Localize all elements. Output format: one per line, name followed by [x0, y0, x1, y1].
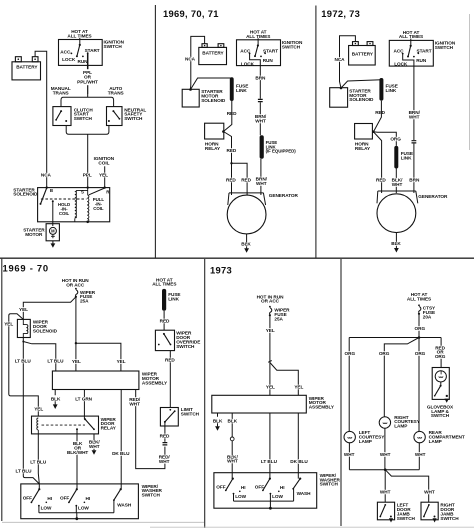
wiper door solenoid box [17, 319, 30, 337]
BLK ground wire [395, 233, 397, 249]
generator top plate [228, 193, 266, 205]
left jamb blade top dot [384, 504, 386, 506]
bus output drop [76, 513, 78, 519]
override lower contact dot [158, 344, 160, 346]
override switch pivot dot [163, 333, 165, 335]
switch output L wire [250, 53, 261, 65]
svg-text:BLK: BLK [213, 419, 223, 424]
BLK ground arrow [53, 404, 58, 409]
split brace to both switches [61, 94, 114, 107]
PPL wire to solenoid S [87, 134, 89, 187]
ignition switch box [59, 40, 103, 66]
svg-text:1969 - 70: 1969 - 70 [3, 262, 49, 273]
switch1 blade [226, 479, 233, 491]
svg-text:OFF: OFF [255, 485, 264, 490]
HI dot 1 [46, 502, 48, 504]
switch2 entry dot [269, 478, 271, 480]
svg-text:COIL: COIL [93, 206, 104, 211]
svg-text:YEL: YEL [117, 359, 126, 364]
generator top plate [377, 191, 418, 203]
svg-text:OR ACC: OR ACC [66, 282, 85, 287]
ORG wire horn relay to fuse link 2 [373, 132, 396, 146]
clutch switch lower contact dot [65, 120, 67, 122]
svg-text:LOW: LOW [235, 494, 246, 499]
ignition switch box [237, 40, 281, 66]
glovebox switch blade [435, 386, 441, 396]
starter motor solenoid box [182, 89, 199, 107]
WIPER DOOR OVERRIDE SWITCH label [176, 331, 200, 349]
bus junction dot [418, 336, 421, 339]
RUN dot 2 [260, 56, 262, 58]
HOT AT ALL TIMES label [399, 30, 423, 39]
STARTER MOTOR label [23, 228, 45, 237]
BLK ground arrow [215, 426, 220, 431]
BRN/WHT label 2 [256, 176, 268, 185]
svg-text:ORG: ORG [415, 326, 426, 331]
ctsy fuse symbol [418, 304, 421, 315]
svg-text:ORG: ORG [379, 351, 390, 356]
RED wire fuse link to override switch [163, 311, 165, 330]
svg-text:WHT: WHT [415, 452, 426, 457]
BRN/WHT label [255, 114, 267, 123]
YEL wire to motor left input [269, 362, 271, 395]
svg-text:LT BLU: LT BLU [15, 359, 32, 364]
starter solenoid box [38, 188, 110, 222]
rear compartment lamp filament [418, 437, 422, 438]
svg-text:LOCK: LOCK [394, 62, 408, 67]
svg-text:SWITCH: SWITCH [176, 344, 195, 349]
svg-text:HI: HI [86, 496, 91, 501]
LEFT DOOR JAMB SWITCH label [397, 502, 416, 521]
switch1 blade dot [31, 502, 33, 504]
solenoid dashed link [41, 198, 87, 200]
faint bottom edge line [150, 526, 474, 528]
ignition switch 3 blade dot [407, 56, 409, 58]
limit lower dot [164, 421, 166, 423]
wire fuse to wiper door solenoid [23, 297, 76, 320]
svg-text:WHT: WHT [409, 115, 420, 120]
svg-text:ORG: ORG [415, 351, 426, 356]
svg-text:YEL: YEL [4, 322, 13, 327]
svg-text:NCA: NCA [334, 57, 345, 62]
wiper washer switch box [21, 484, 139, 519]
ignition switch pivot dot [79, 44, 81, 46]
LT BLU wire relay to switch [38, 434, 39, 484]
BRN/WHT wire [259, 102, 261, 135]
CLUTCH START SWITCH label [74, 107, 94, 121]
svg-text:WHT: WHT [227, 459, 238, 464]
svg-text:ASSEMBLY: ASSEMBLY [142, 380, 168, 385]
battery [349, 42, 376, 65]
svg-text:B: B [50, 188, 53, 193]
FUSE LINK label [168, 292, 180, 301]
RED OR ORG label [435, 345, 446, 359]
svg-text:DK BLU: DK BLU [112, 451, 130, 456]
HORN RELAY label [205, 142, 221, 151]
RUN contact dot [82, 56, 84, 58]
svg-text:OFF: OFF [60, 496, 69, 501]
clutch start switch box [53, 107, 71, 126]
HI dot 2 [84, 502, 86, 504]
svg-text:1972, 73: 1972, 73 [321, 8, 360, 19]
right jamb blade top dot [428, 504, 430, 506]
limit switch blade [165, 411, 175, 422]
NCA wire battery to solenoid [340, 36, 356, 88]
right jamb contact dot [434, 516, 436, 518]
YEL junction dot [75, 342, 77, 344]
ORG wire fuse down [418, 314, 420, 338]
left courtesy lamp filament [348, 437, 352, 438]
svg-text:RED: RED [226, 177, 236, 182]
svg-text:WHT: WHT [255, 119, 266, 124]
FUSE LINK IF EQUIPPED label [266, 140, 297, 154]
LOW dot 2 [270, 493, 272, 495]
fuse link bar [379, 78, 383, 101]
split tick [268, 361, 272, 363]
svg-text:(IF EQUIPPED): (IF EQUIPPED) [266, 149, 297, 154]
CTSY FUSE 20A label [423, 306, 436, 320]
neutral switch lower contact dot [108, 120, 110, 122]
FUSE LINK label [386, 83, 398, 92]
REAR COMPARTMENT LAMP label [429, 430, 465, 444]
neutral switch blade [113, 111, 119, 119]
LT BLU wire solenoid down long [23, 338, 39, 484]
fuse link bar [230, 77, 234, 101]
BRN/WHT wire down [413, 66, 415, 140]
HOT AT ALL TIMES label [407, 292, 431, 301]
left jamb ground arrow [389, 518, 393, 522]
svg-text:LINK: LINK [236, 88, 247, 93]
row divider horizontal [0, 257, 474, 259]
solenoid top junction dot [189, 88, 192, 91]
wash switch blade [114, 489, 121, 500]
svg-text:RED: RED [375, 110, 385, 115]
switch2 blade dot [68, 502, 70, 504]
HOT AT ALL TIMES label [246, 30, 270, 39]
fuse link 2 bar [394, 146, 398, 169]
RED wire horn relay down [223, 132, 231, 164]
svg-text:HI: HI [47, 496, 52, 501]
svg-text:ORG: ORG [390, 137, 401, 142]
svg-text:SOLENOID: SOLENOID [349, 97, 374, 102]
panel divider top left/mid [154, 5, 156, 258]
WIPER DOOR RELAY label [101, 417, 117, 431]
switch1 entry stub [38, 484, 40, 489]
generator circle [377, 194, 416, 233]
WIPER FUSE 25A label [274, 308, 290, 322]
svg-text:NCA: NCA [41, 173, 52, 178]
svg-text:ALL TIMES: ALL TIMES [407, 296, 431, 301]
svg-text:LOCK: LOCK [241, 61, 255, 66]
RED wire limit switch down [164, 422, 166, 442]
faint right border top panel [469, 14, 471, 150]
svg-text:WHT: WHT [129, 401, 140, 406]
relay dashed link [42, 424, 86, 426]
IGNITION COIL label [94, 156, 115, 166]
switch1 blade [31, 489, 39, 502]
svg-text:LAMP: LAMP [394, 424, 407, 429]
bus output dot [269, 507, 272, 510]
BLK/WHT wire fuse 2 to generator [395, 169, 397, 194]
generator ground arrow [244, 248, 249, 253]
HOLD-IN COIL label [58, 202, 70, 216]
svg-text:BLK: BLK [241, 241, 251, 246]
svg-text:SWITCH: SWITCH [440, 516, 459, 521]
svg-text:MOTOR: MOTOR [25, 232, 43, 237]
WIPER/WASHER SWITCH label [320, 473, 341, 487]
svg-text:RED: RED [227, 111, 237, 116]
RED wire fuse to horn relay junction [374, 101, 382, 132]
terminal B dot [46, 186, 48, 188]
switch2 blade [69, 489, 77, 502]
svg-text:LOW: LOW [41, 506, 52, 511]
svg-text:RELAY: RELAY [101, 426, 117, 431]
IGNITION SWITCH label [435, 41, 456, 50]
main YEL wire fuse to motor [75, 297, 77, 343]
RED branch to second generator input [232, 163, 248, 195]
merge brace below switches [66, 126, 109, 135]
glovebox blade end dot [434, 395, 436, 397]
svg-text:PPL: PPL [83, 173, 92, 178]
WHT bus junction dot [384, 468, 387, 471]
ignition switch blade end dot [76, 55, 78, 57]
LOW dot 1 [38, 505, 40, 507]
svg-text:LINK: LINK [386, 88, 397, 93]
solenoid branch jog [23, 342, 56, 372]
svg-text:ALL TIMES: ALL TIMES [399, 34, 423, 39]
left jamb blade [380, 505, 385, 517]
BLK/WHT label [392, 178, 403, 187]
ORG branch glovebox [440, 338, 442, 368]
RED wire to generator [231, 163, 233, 195]
svg-text:RED: RED [160, 319, 170, 324]
STARTER MOTOR SOLENOID label [349, 88, 374, 102]
svg-text:M: M [51, 229, 55, 234]
ORG branch rear lamp [418, 338, 420, 432]
YEL branch to motor right input [76, 343, 121, 371]
BLK ground wire [246, 234, 248, 249]
inline connector RED [163, 443, 168, 445]
YEL wire to solenoid R [104, 166, 106, 187]
RED wire override to limit switch [169, 351, 171, 408]
YEL branch to motor right input [270, 363, 298, 396]
LT GRN wire motor to relay [83, 390, 85, 420]
right lamp wire down [384, 428, 386, 470]
svg-text:PPL/WHT: PPL/WHT [77, 79, 98, 84]
solenoid blade end dot [40, 203, 42, 205]
svg-text:BLK: BLK [51, 397, 61, 402]
rear compartment lamp circle [414, 431, 425, 442]
svg-text:YEL: YEL [72, 359, 81, 364]
switch1 entry dot [232, 478, 234, 480]
svg-text:WHT: WHT [392, 182, 403, 187]
battery terminal dots [18, 58, 20, 60]
svg-text:GENERATOR: GENERATOR [269, 193, 299, 198]
R to pull-in coil link [89, 188, 105, 195]
faint bottom border bottom-left panel [2, 521, 204, 523]
svg-text:SOLENOID: SOLENOID [201, 98, 226, 103]
left jamb blade bottom dot [379, 516, 381, 518]
horn relay junction dot [222, 130, 225, 133]
RIGHT DOOR JAMB SWITCH label [440, 502, 459, 521]
svg-text:OFF: OFF [23, 496, 32, 501]
svg-text:25A: 25A [274, 316, 283, 321]
solenoid top junction dot [340, 87, 343, 90]
WHT jog to right jamb switch [385, 470, 429, 503]
svg-text:YEL: YEL [266, 384, 275, 389]
svg-text:LOW: LOW [272, 494, 283, 499]
solenoid bottom junction dot [86, 221, 89, 224]
WIPER FUSE 25A label [80, 290, 96, 304]
BLK/WHT label [227, 454, 238, 463]
hold-in coil winding [75, 190, 88, 221]
svg-text:TRANS: TRANS [108, 91, 124, 96]
BLK stub below motor [54, 390, 56, 405]
svg-text:LOW: LOW [78, 506, 89, 511]
svg-text:RUN: RUN [263, 58, 274, 63]
ORG bus horizontal [349, 337, 441, 339]
BLK/WHT ground wire relay [93, 434, 95, 450]
LT BLU wire to switch [269, 413, 271, 479]
BRN wire down [259, 66, 261, 99]
override blade end dot [170, 344, 172, 346]
wiper door override switch box [155, 330, 174, 350]
clutch switch blade dot [55, 119, 57, 121]
IGNITION SWITCH label [282, 40, 303, 49]
LOW2 to bus [75, 506, 77, 513]
svg-text:ALL TIMES: ALL TIMES [246, 34, 270, 39]
junction dot RED split [230, 162, 232, 164]
fuse link if equipped bar [260, 135, 264, 159]
bottom-left panel left border [1, 259, 3, 521]
GLOVEBOX LAMP SWITCH label [427, 404, 454, 418]
BRN/WHT label top [409, 110, 421, 119]
generator circle [227, 195, 266, 234]
svg-text:LT BLU: LT BLU [47, 359, 64, 364]
inline connector BRN [412, 141, 417, 143]
wiper washer switch box [214, 473, 317, 509]
svg-text:BLK/WHT: BLK/WHT [67, 450, 88, 455]
RED wire horn relay to generator [373, 132, 381, 193]
FUSE LINK label [236, 84, 248, 93]
svg-text:RUN: RUN [78, 59, 89, 64]
svg-text:WHT: WHT [380, 490, 391, 495]
BRN/WHT wire to generator [260, 159, 262, 195]
svg-text:LINK: LINK [168, 296, 179, 301]
rear lamp wire down [418, 443, 420, 470]
svg-text:WASH: WASH [117, 502, 132, 507]
svg-text:YEL: YEL [99, 173, 108, 178]
motor feed wire [52, 201, 54, 226]
switch1 blade dot [225, 490, 227, 492]
left courtesy lamp circle [344, 431, 355, 442]
svg-text:SWITCH: SWITCH [124, 116, 143, 121]
WIPER MOTOR ASSEMBLY label [142, 372, 168, 386]
svg-text:WHT: WHT [424, 490, 435, 495]
wire solenoid to fuse link [341, 80, 381, 88]
panel divider top mid/right [315, 6, 317, 258]
ignition switch box [389, 40, 433, 66]
motor feed contact dot [52, 200, 54, 202]
RED wire fuse to horn relay junction [223, 101, 231, 132]
svg-text:RED: RED [376, 178, 386, 183]
svg-text:ACC.: ACC. [60, 50, 71, 55]
svg-text:25A: 25A [80, 299, 89, 304]
svg-text:YEL: YEL [266, 328, 275, 333]
panel divider bottom left/mid [204, 259, 206, 528]
glovebox lamp and switch box [432, 368, 449, 400]
pull-in coil winding [87, 188, 89, 222]
terminal S dot [87, 186, 89, 188]
glovebox switch wire [440, 382, 442, 386]
ORG branch left lamp [348, 338, 350, 432]
HOT AT ALL TIMES label right [152, 278, 176, 287]
MANUAL TRANS label [51, 86, 71, 96]
ignition switch blade [77, 45, 80, 56]
limit switch entry dot [169, 409, 171, 411]
svg-text:WHT: WHT [344, 452, 355, 457]
svg-text:WASH: WASH [297, 491, 312, 496]
HORN RELAY label [355, 142, 371, 151]
svg-text:LINK: LINK [401, 155, 412, 160]
WIPER DOOR SOLENOID label [33, 320, 58, 334]
relay switch pivot dot [84, 418, 86, 420]
glovebox lamp circle [435, 371, 446, 382]
svg-text:BATTERY: BATTERY [352, 52, 374, 57]
clutch switch pivot dot [60, 110, 62, 112]
wiper fuse symbol [75, 288, 78, 298]
BLK OR BLK/WHT label [67, 441, 88, 455]
RED/WHT label [129, 397, 141, 406]
wiper motor assembly box [52, 371, 138, 390]
YEL branch wire left side [9, 314, 39, 416]
wiper door solenoid winding [23, 319, 28, 337]
svg-text:SWITCH: SWITCH [142, 493, 161, 498]
clutch switch blade [56, 111, 61, 120]
YEL wire fuse down [269, 315, 271, 361]
relay switch blade [85, 419, 94, 429]
svg-text:DK BLU: DK BLU [290, 459, 308, 464]
svg-text:HI: HI [280, 485, 285, 490]
ACC dot 3 [402, 53, 404, 55]
PULL-IN COIL label [93, 197, 105, 211]
neutral switch pivot dot [112, 110, 114, 112]
LIMIT SWITCH label [181, 407, 200, 416]
svg-text:SOLENOID: SOLENOID [13, 192, 38, 197]
svg-text:ORG: ORG [435, 354, 446, 359]
svg-text:RELAY: RELAY [205, 146, 221, 151]
svg-text:WHT: WHT [380, 452, 391, 457]
NCA wire battery to solenoid [190, 36, 204, 89]
svg-text:OFF: OFF [216, 485, 225, 490]
svg-text:START: START [85, 48, 100, 53]
relay coil winding [37, 418, 39, 434]
svg-text:SWITCH: SWITCH [397, 516, 416, 521]
BLK ground stub [217, 413, 219, 426]
DK BLU wire to switch [297, 413, 299, 479]
svg-text:COIL: COIL [98, 161, 109, 166]
svg-text:BLK: BLK [391, 241, 401, 246]
left lamp wire down [348, 443, 350, 470]
svg-text:LT GRN: LT GRN [75, 397, 92, 402]
motor ground wire [52, 241, 54, 244]
wash blade dot [113, 499, 115, 501]
DK BLU wire motor to washer switch [120, 390, 122, 490]
starter motor solenoid box [330, 88, 348, 108]
WIPER MOTOR ASSEMBLY label [309, 396, 335, 410]
svg-text:SWITCH: SWITCH [74, 116, 93, 121]
battery [12, 57, 41, 80]
